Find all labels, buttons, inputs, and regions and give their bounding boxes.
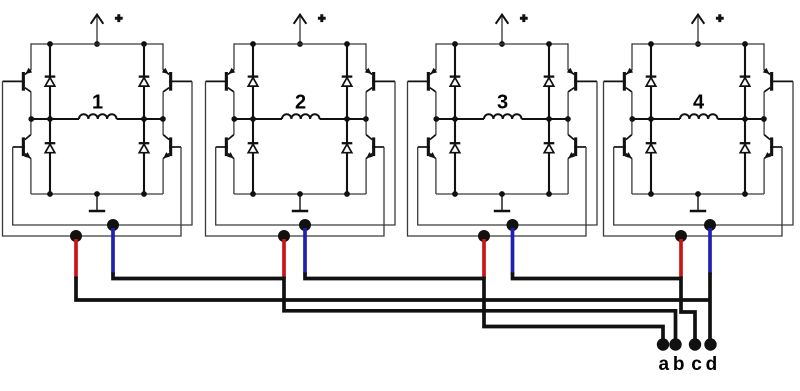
plus label module 2: [318, 14, 326, 22]
wire mid to Q11 collector: [435, 119, 437, 135]
diode D16: [740, 142, 751, 144]
diode D2: [139, 75, 150, 77]
node red terminal module 4: [675, 230, 687, 242]
node mid right outer module 4: [761, 116, 767, 122]
node supply rail center module 4: [695, 41, 701, 47]
node blue terminal module 3: [507, 219, 519, 231]
diode branch wire lower-left module 1: [49, 119, 51, 194]
node supply rail center module 3: [499, 41, 505, 47]
terminal b: [669, 338, 681, 350]
node blue terminal module 4: [704, 219, 716, 231]
supply arrow module 3: [501, 16, 503, 44]
wire Q11 emitter to bottom rail: [435, 158, 437, 194]
node bottom-right module 1: [141, 191, 147, 197]
node mid right outer module 2: [363, 116, 369, 122]
wire inner loop module 1: [13, 81, 192, 225]
node mid right diode module 1: [141, 116, 147, 122]
transistor Q9: [427, 72, 430, 91]
diode branch wire upper-right module 1: [143, 44, 145, 119]
wire mid to Q8 collector: [365, 119, 367, 135]
wire mid to Q16 collector: [763, 119, 765, 135]
wire Q1 collector to mid: [30, 92, 32, 119]
wire Q8 emitter to bottom rail: [365, 158, 367, 194]
inductor L1: [79, 114, 117, 119]
ground module 1: [96, 194, 98, 211]
node blue terminal module 2: [299, 219, 311, 231]
wire outer loop module 4: [604, 81, 783, 236]
wire Q13 collector to mid: [631, 92, 633, 119]
transistor Q11: [427, 137, 430, 156]
node mid right outer module 3: [565, 116, 571, 122]
wire rail corner to Q10: [567, 43, 569, 70]
node red terminal module 2: [278, 230, 290, 242]
wire Q10 collector to mid: [567, 92, 569, 119]
diode D11: [450, 142, 461, 144]
diode branch wire upper-left module 3: [454, 44, 456, 119]
node bottom-right module 3: [546, 191, 552, 197]
diode D3: [45, 142, 56, 144]
diode branch wire lower-left module 2: [252, 119, 254, 194]
plus label module 4: [716, 14, 724, 22]
bottom rail wire module 4: [632, 193, 764, 195]
svg-text:1: 1: [92, 92, 103, 114]
node mid right diode module 3: [546, 116, 552, 122]
ground module 3: [501, 194, 503, 211]
terminal c: [689, 338, 701, 350]
wire mid to Q7 collector: [233, 119, 235, 135]
node bottom-center module 1: [94, 191, 100, 197]
diode D13: [646, 75, 657, 77]
wire junction b2r3 to terminal a: [484, 277, 663, 345]
transistor Q5: [225, 72, 228, 91]
wire Q4 emitter to bottom rail: [162, 158, 164, 194]
wire blue1 to red2 link: [113, 273, 284, 279]
wire Q5 collector to mid: [233, 92, 235, 119]
wire rail corner to Q14: [763, 43, 765, 70]
node supply rail center module 1: [94, 41, 100, 47]
diode D14: [740, 75, 751, 77]
node mid left outer module 4: [629, 116, 635, 122]
wire junction b1r2 to terminal b: [284, 277, 676, 345]
wire outer loop module 3: [408, 81, 587, 236]
diode D12: [544, 142, 555, 144]
wire blue lead module 1: [111, 228, 115, 274]
diode D7: [248, 142, 259, 144]
node bottom-right module 4: [742, 191, 748, 197]
transistor Q12: [574, 137, 577, 156]
wire Q3 emitter to bottom rail: [30, 158, 32, 194]
node bottom-center module 4: [695, 191, 701, 197]
node bottom-left module 3: [452, 191, 458, 197]
svg-text:d: d: [706, 354, 718, 375]
node rail-diode left module 2: [250, 41, 256, 47]
transistor Q6: [372, 72, 375, 91]
diode D5: [248, 75, 259, 77]
wire Q2 collector to mid: [162, 92, 164, 119]
wire inner loop module 2: [216, 81, 395, 225]
diode D10: [544, 75, 555, 77]
node rail-diode right module 3: [546, 41, 552, 47]
wire Q14 collector to mid: [763, 92, 765, 119]
node mid left diode module 3: [452, 116, 458, 122]
wire red lead module 2: [282, 239, 286, 278]
node rail-diode right module 4: [742, 41, 748, 47]
top rail wire module 4: [632, 43, 764, 45]
wire Q6 collector to mid: [365, 92, 367, 119]
transistor Q2: [169, 72, 172, 91]
svg-text:3: 3: [497, 92, 508, 114]
bottom rail wire module 2: [234, 193, 366, 195]
diode branch wire lower-right module 4: [744, 119, 746, 194]
svg-text:a: a: [659, 354, 670, 375]
wire mid to Q3 collector: [30, 119, 32, 135]
diode D4: [139, 142, 150, 144]
wire rail corner to Q9: [435, 43, 437, 70]
node bottom-center module 3: [499, 191, 505, 197]
wire blue4 to terminal d: [708, 273, 712, 345]
wire red1 to terminal d bus: [76, 277, 710, 301]
node mid left outer module 1: [28, 116, 34, 122]
node rail-diode right module 2: [344, 41, 350, 47]
wire mid-right module 4: [718, 118, 765, 120]
inductor L3: [484, 114, 522, 119]
top rail wire module 2: [234, 43, 366, 45]
node bottom-left module 1: [47, 191, 53, 197]
wire rail corner to Q13: [631, 43, 633, 70]
wire mid to Q15 collector: [631, 119, 633, 135]
wire junction b3r4 to terminal c: [681, 277, 695, 345]
diode branch wire upper-left module 1: [49, 44, 51, 119]
diode branch wire upper-right module 2: [346, 44, 348, 119]
plus label module 1: [115, 14, 123, 22]
diode branch wire lower-left module 4: [650, 119, 652, 194]
node rail-diode right module 1: [141, 41, 147, 47]
ground module 4: [697, 194, 699, 211]
wire Q12 emitter to bottom rail: [567, 158, 569, 194]
diode D1: [45, 75, 56, 77]
transistor Q16: [770, 137, 773, 156]
wire mid-right module 3: [522, 118, 569, 120]
node mid left outer module 2: [231, 116, 237, 122]
transistor Q3: [22, 137, 25, 156]
terminal a: [657, 338, 669, 350]
supply arrow module 4: [697, 16, 699, 44]
bottom rail wire module 3: [436, 193, 568, 195]
wire rail corner to Q5: [233, 43, 235, 70]
node bottom-left module 4: [648, 191, 654, 197]
node blue terminal module 1: [107, 219, 119, 231]
wire mid-left module 3: [436, 118, 484, 120]
wire blue lead module 3: [511, 228, 515, 274]
terminal d: [704, 338, 716, 350]
node mid left outer module 3: [433, 116, 439, 122]
transistor Q13: [623, 72, 626, 91]
svg-text:b: b: [673, 354, 685, 375]
node mid right diode module 2: [344, 116, 350, 122]
node mid right outer module 1: [160, 116, 166, 122]
node rail-diode left module 1: [47, 41, 53, 47]
svg-text:2: 2: [295, 92, 306, 114]
wire blue3 to red4 link: [513, 273, 682, 279]
transistor Q8: [372, 137, 375, 156]
wire mid-right module 2: [320, 118, 367, 120]
supply arrow module 1: [96, 16, 98, 44]
inductor L4: [680, 114, 718, 119]
transistor Q4: [169, 137, 172, 156]
node bottom-right module 2: [344, 191, 350, 197]
node bottom-center module 2: [297, 191, 303, 197]
wire Q15 emitter to bottom rail: [631, 158, 633, 194]
diode D9: [450, 75, 461, 77]
node red terminal module 3: [478, 230, 490, 242]
diode branch wire lower-right module 2: [346, 119, 348, 194]
wire blue2 to red3 link: [305, 273, 484, 279]
wire rail corner to Q2: [162, 43, 164, 70]
node mid left diode module 4: [648, 116, 654, 122]
transistor Q1: [22, 72, 25, 91]
wire red lead module 1: [74, 239, 78, 278]
transistor Q14: [770, 72, 773, 91]
wire mid-right module 1: [117, 118, 164, 120]
svg-text:c: c: [691, 354, 702, 375]
transistor Q10: [574, 72, 577, 91]
node mid right diode module 4: [742, 116, 748, 122]
transistor Q15: [623, 137, 626, 156]
diode D6: [342, 75, 353, 77]
wire Q7 emitter to bottom rail: [233, 158, 235, 194]
wire mid-left module 2: [234, 118, 282, 120]
node mid left diode module 1: [47, 116, 53, 122]
diode branch wire upper-left module 4: [650, 44, 652, 119]
diode branch wire lower-right module 1: [143, 119, 145, 194]
supply arrow module 2: [299, 16, 301, 44]
wire mid-left module 1: [31, 118, 79, 120]
plus label module 3: [520, 14, 528, 22]
node rail-diode left module 3: [452, 41, 458, 47]
diode branch wire upper-right module 3: [548, 44, 550, 119]
wire mid to Q4 collector: [162, 119, 164, 135]
top rail wire module 3: [436, 43, 568, 45]
diode branch wire lower-left module 3: [454, 119, 456, 194]
wire inner loop module 4: [614, 81, 793, 225]
diode branch wire upper-right module 4: [744, 44, 746, 119]
wire mid-left module 4: [632, 118, 680, 120]
wire blue lead module 2: [303, 228, 307, 274]
wire outer loop module 1: [3, 81, 182, 236]
diode D8: [342, 142, 353, 144]
transistor Q7: [225, 137, 228, 156]
wire red lead module 3: [482, 239, 486, 278]
wire outer loop module 2: [206, 81, 385, 236]
diode D15: [646, 142, 657, 144]
wire blue lead module 4: [708, 228, 712, 274]
node rail-diode left module 4: [648, 41, 654, 47]
node red terminal module 1: [70, 230, 82, 242]
ground module 2: [299, 194, 301, 211]
wire mid to Q12 collector: [567, 119, 569, 135]
wire red lead module 4: [679, 239, 683, 278]
wire rail corner to Q6: [365, 43, 367, 70]
bottom rail wire module 1: [31, 193, 163, 195]
svg-text:4: 4: [693, 92, 705, 114]
node bottom-left module 2: [250, 191, 256, 197]
wire Q9 collector to mid: [435, 92, 437, 119]
diode branch wire lower-right module 3: [548, 119, 550, 194]
diode branch wire upper-left module 2: [252, 44, 254, 119]
inductor L2: [282, 114, 320, 119]
wire rail corner to Q1: [30, 43, 32, 70]
wire Q16 emitter to bottom rail: [763, 158, 765, 194]
node mid left diode module 2: [250, 116, 256, 122]
top rail wire module 1: [31, 43, 163, 45]
node supply rail center module 2: [297, 41, 303, 47]
wire inner loop module 3: [418, 81, 597, 225]
